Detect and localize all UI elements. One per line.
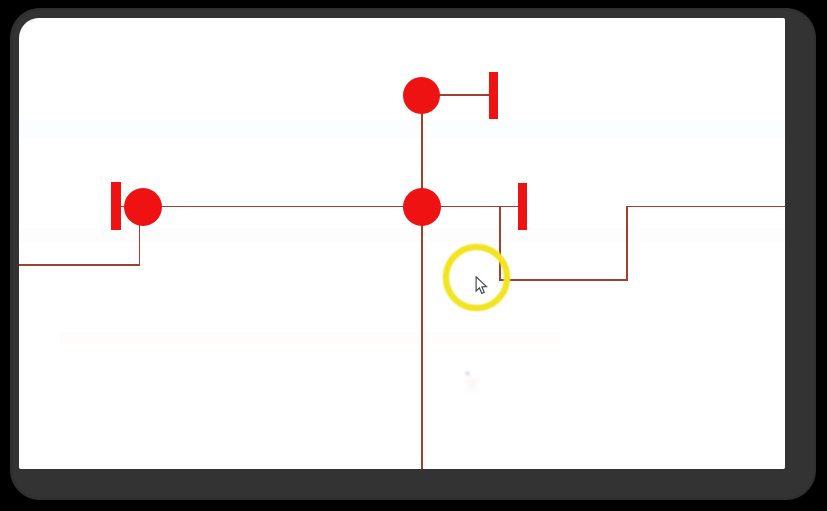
wire: main horizontal from pin P2 through N3 and N2 to pin P3 [116, 206, 518, 208]
wire: stub down-left from node N3 to left edge [139, 224, 141, 266]
mouse cursor [475, 276, 489, 295]
wire: main vertical bus through N1 and N2 down to bottom edge [421, 95, 423, 469]
faint band artifacts on canvas [19, 120, 785, 138]
node N1 (top junction dot) [403, 77, 440, 114]
pin P2 (left terminal bar) [111, 182, 121, 230]
faint cursor trail dot [465, 371, 470, 376]
node N2 (center junction dot) [403, 188, 441, 226]
wire: right-side stepped run from junction under P3 to right edge [499, 206, 501, 280]
pin P3 (right terminal bar) [518, 183, 527, 230]
yellow highlight ring around cursor [443, 244, 510, 311]
node N3 (left junction dot) [124, 188, 162, 226]
pin P1 (top terminal bar) [489, 72, 498, 119]
wire: top horizontal from node N1 to pin P1 [438, 94, 490, 96]
